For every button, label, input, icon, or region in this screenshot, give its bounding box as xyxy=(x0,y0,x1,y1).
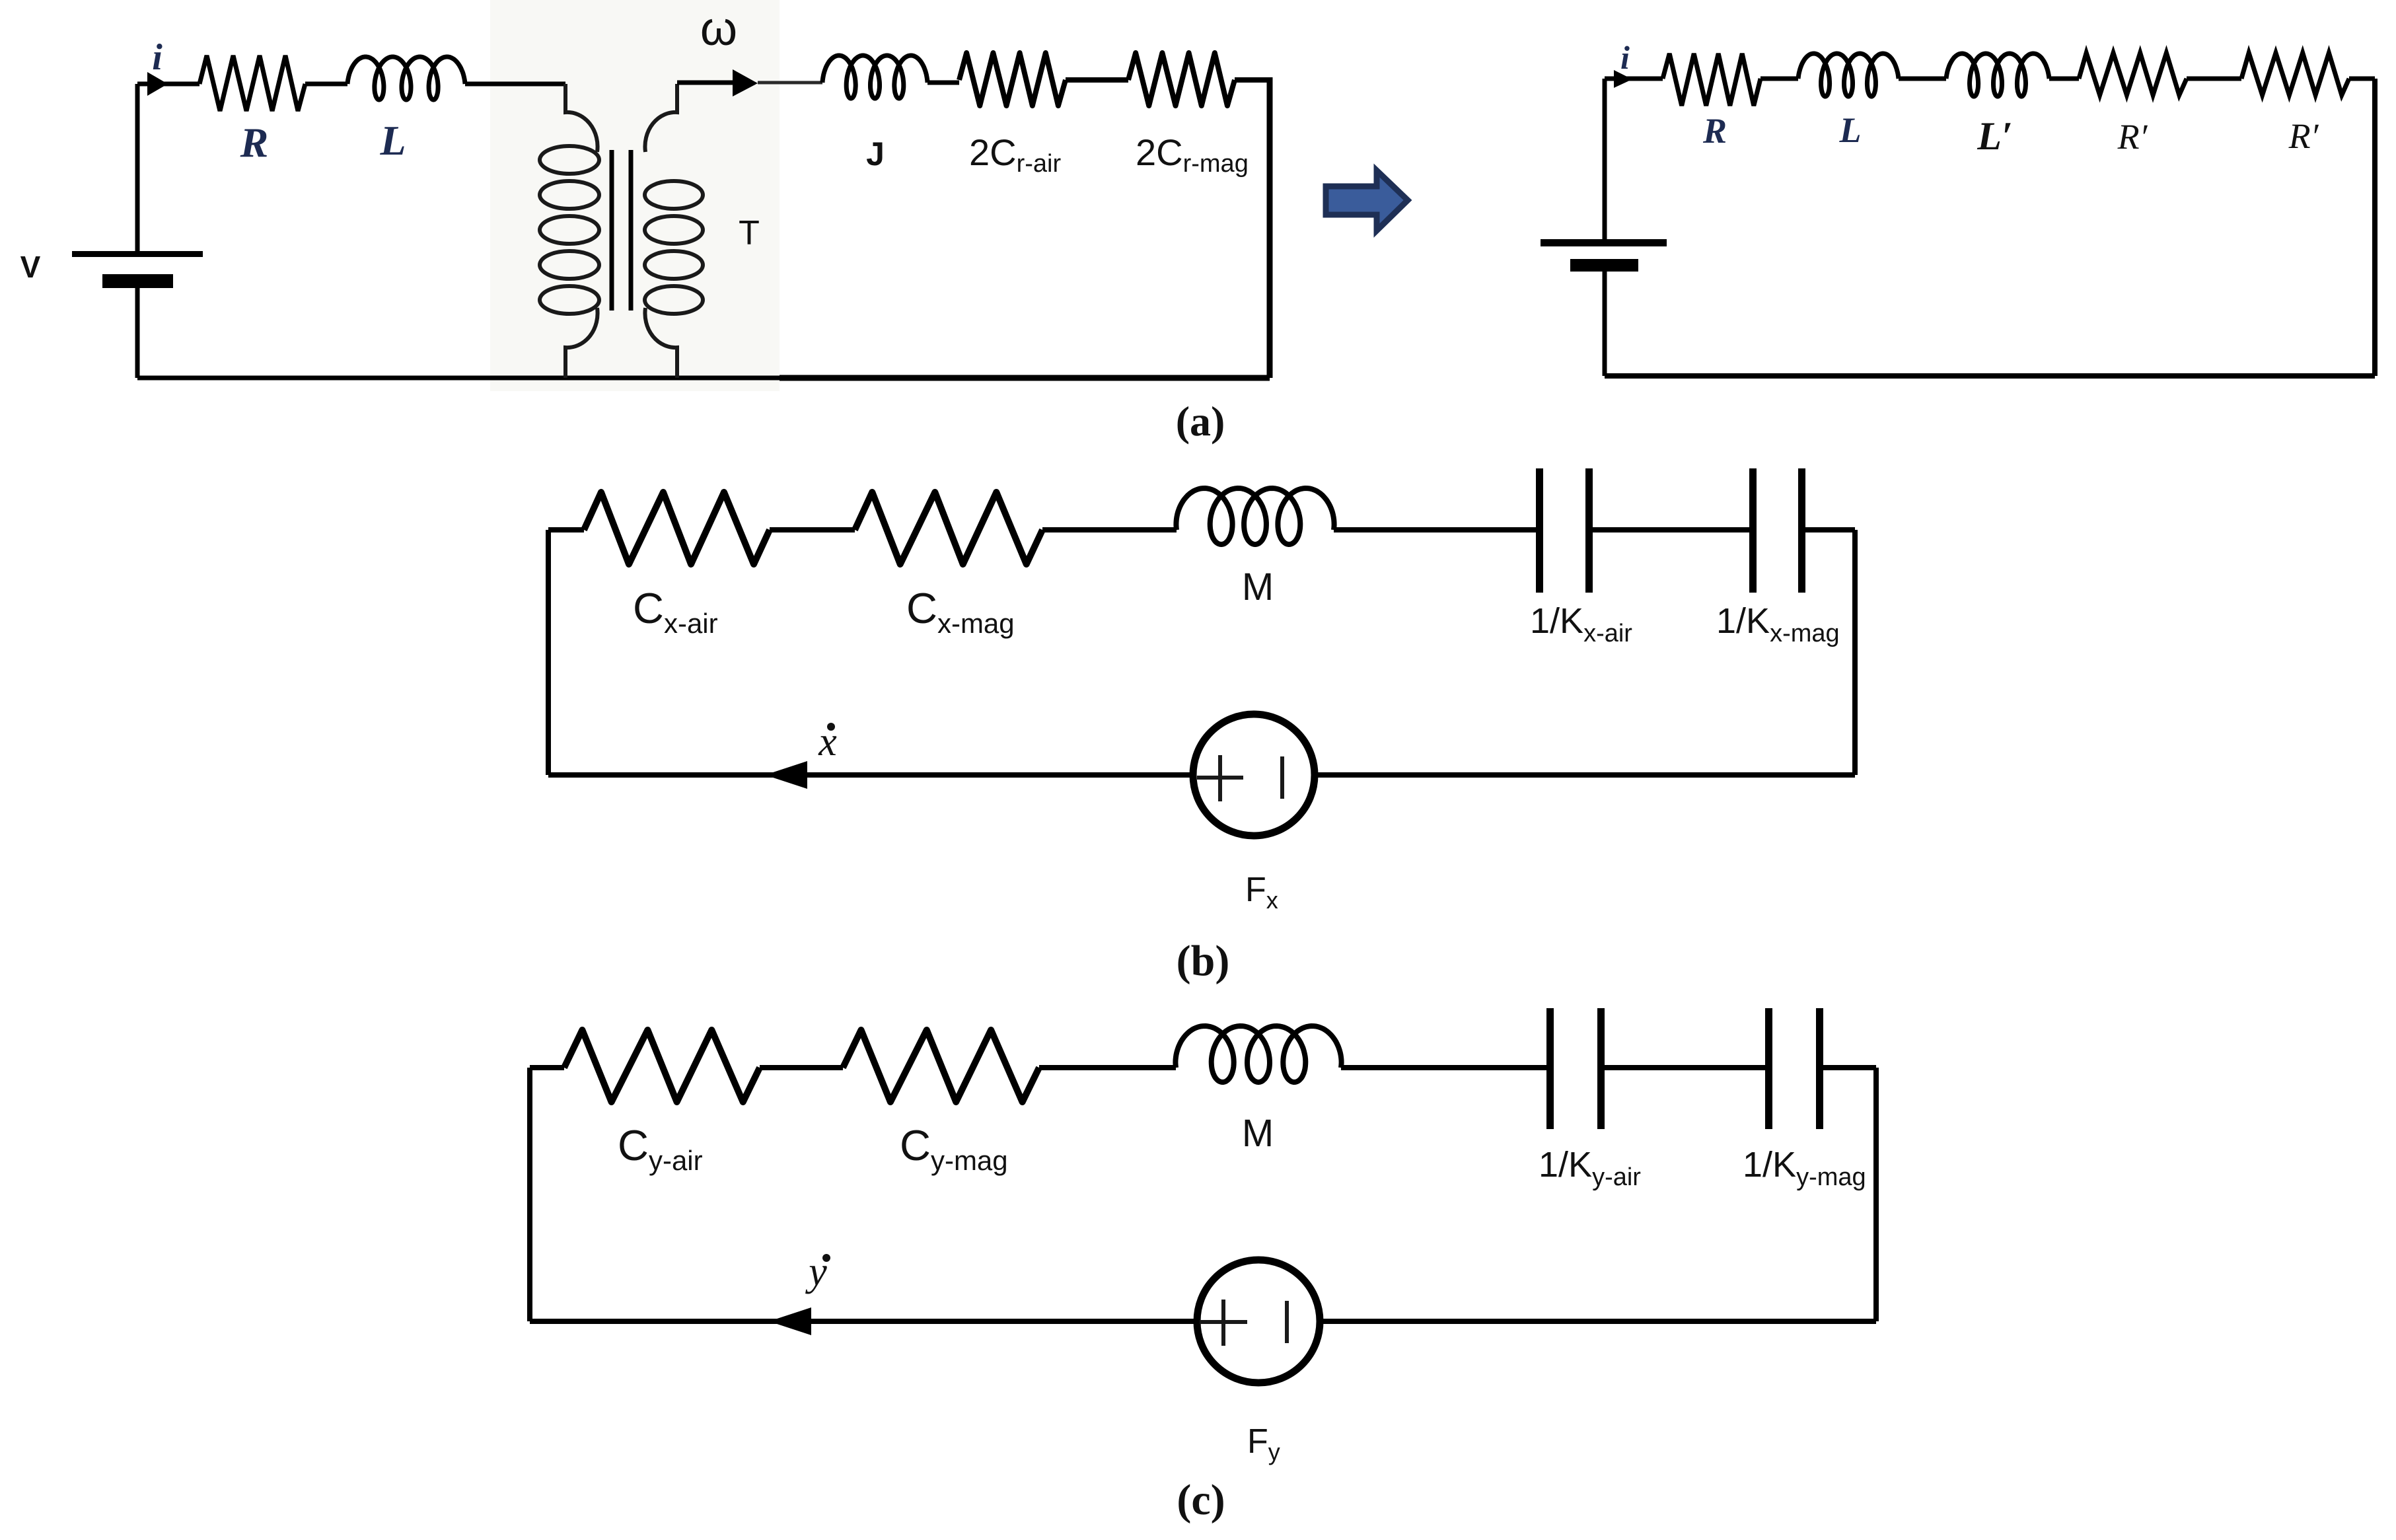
svg-text:i: i xyxy=(1620,39,1630,76)
svg-text:(c): (c) xyxy=(1177,1476,1225,1524)
svg-text:R: R xyxy=(1702,111,1727,151)
svg-text:2Cr-mag: 2Cr-mag xyxy=(1136,131,1249,178)
svg-text:Fy: Fy xyxy=(1247,1422,1280,1465)
svg-text:Cy-mag: Cy-mag xyxy=(900,1121,1008,1176)
svg-text:J: J xyxy=(866,135,885,172)
svg-text:R′: R′ xyxy=(2288,116,2319,156)
svg-text:(a): (a) xyxy=(1176,398,1225,445)
svg-text:i: i xyxy=(152,37,163,78)
svg-text:Cx-mag: Cx-mag xyxy=(906,584,1015,639)
svg-text:1/Ky-air: 1/Ky-air xyxy=(1539,1145,1641,1191)
svg-text:T: T xyxy=(739,214,760,252)
svg-text:Cx-air: Cx-air xyxy=(633,584,718,639)
svg-text:M: M xyxy=(1242,566,1274,608)
svg-text:L′: L′ xyxy=(1977,114,2013,158)
svg-text:M: M xyxy=(1242,1112,1274,1155)
svg-text:L: L xyxy=(379,117,406,164)
svg-text:ω: ω xyxy=(700,3,737,55)
svg-text:2Cr-air: 2Cr-air xyxy=(969,131,1061,178)
svg-text:1/Kx-mag: 1/Kx-mag xyxy=(1716,601,1840,647)
svg-text:1/Kx-air: 1/Kx-air xyxy=(1530,601,1632,647)
svg-text:V: V xyxy=(20,250,41,284)
svg-text:R: R xyxy=(240,119,269,166)
svg-text:1/Ky-mag: 1/Ky-mag xyxy=(1743,1145,1866,1191)
svg-text:(b): (b) xyxy=(1177,937,1230,985)
svg-text:Cy-air: Cy-air xyxy=(618,1121,703,1176)
svg-text:L: L xyxy=(1839,110,1862,150)
svg-text:Fx: Fx xyxy=(1245,871,1278,914)
svg-text:R′: R′ xyxy=(2117,117,2148,157)
